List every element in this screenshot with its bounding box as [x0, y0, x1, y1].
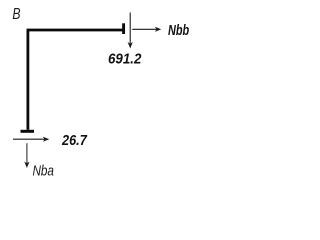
end tick at bottom member end: [21, 130, 35, 133]
axial force arrow Nba (down, at bottom end): [24, 143, 29, 168]
svg-text:Nbb: Nbb: [168, 21, 189, 38]
shear arrow 26.7 (right, at bottom end): [13, 137, 49, 142]
member BC (thick L-frame: top beam and left column): [28, 30, 125, 130]
svg-text:691.2: 691.2: [108, 50, 142, 67]
svg-text:26.7: 26.7: [61, 132, 88, 148]
force arrow 691.2 (down, at top-right end): [128, 13, 133, 49]
svg-text:B: B: [12, 5, 20, 23]
axial force arrow Nbb (right, at top-right end): [132, 27, 161, 32]
svg-text:Nba: Nba: [32, 162, 54, 179]
end tick at top-right member end: [122, 23, 125, 34]
